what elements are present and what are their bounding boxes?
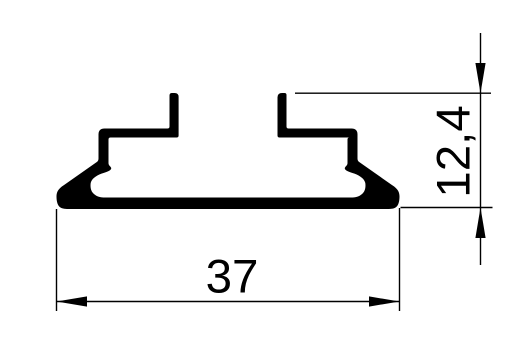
arrowhead top of 12,4 (pointing down)	[475, 63, 485, 93]
arrowhead bottom of 12,4 (pointing up)	[475, 208, 485, 239]
extension line left (37 dim)	[56, 209, 58, 311]
dimension line 12,4	[480, 33, 482, 265]
extension line bottom (12,4 dim)	[401, 207, 493, 209]
profile cross-section (37 x 12,4 clamping rail)	[57, 93, 400, 209]
arrowhead left of 37	[57, 296, 88, 306]
extension line right (37 dim)	[399, 208, 401, 311]
extension line top (12,4 dim)	[295, 92, 491, 94]
svg-text:37: 37	[206, 251, 259, 304]
svg-text:12,4: 12,4	[428, 105, 481, 197]
dimension line 37	[57, 301, 399, 303]
arrowhead right of 37	[369, 296, 400, 306]
